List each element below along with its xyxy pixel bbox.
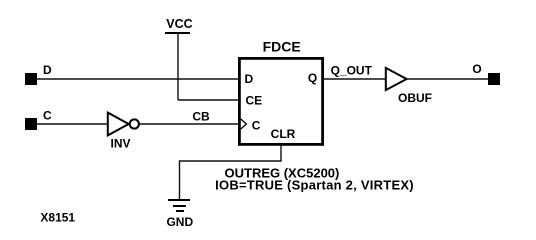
clock wedge xyxy=(241,119,247,129)
input terminal C xyxy=(25,109,52,131)
svg-text:INV: INV xyxy=(110,137,130,151)
svg-text:Q_OUT: Q_OUT xyxy=(331,63,373,77)
svg-text:X8151: X8151 xyxy=(40,211,75,225)
output terminal O xyxy=(472,62,500,85)
svg-text:D: D xyxy=(245,72,254,86)
svg-text:C: C xyxy=(43,109,52,123)
svg-text:CB: CB xyxy=(192,110,210,124)
svg-text:CE: CE xyxy=(246,94,263,108)
svg-text:C: C xyxy=(252,119,261,133)
svg-text:GND: GND xyxy=(166,215,193,229)
wire net CB xyxy=(140,110,240,125)
wire VCC vertical to CE xyxy=(177,33,179,100)
wire net D xyxy=(37,78,239,80)
power VCC symbol xyxy=(165,17,193,33)
input terminal D xyxy=(25,63,52,85)
wire C to inverter xyxy=(37,123,107,125)
svg-text:VCC: VCC xyxy=(166,17,192,31)
wire net Q_OUT xyxy=(323,63,385,79)
svg-text:O: O xyxy=(472,62,481,76)
svg-text:D: D xyxy=(43,63,52,77)
wire CE horizontal xyxy=(178,99,239,101)
inverter INV xyxy=(108,113,139,151)
svg-text:IOB=TRUE (Spartan 2, VIRTEX): IOB=TRUE (Spartan 2, VIRTEX) xyxy=(215,178,414,193)
flip-flop FDCE xyxy=(239,39,322,145)
wire OBUF to O xyxy=(407,78,488,80)
svg-text:CLR: CLR xyxy=(271,127,296,141)
buffer OBUF xyxy=(386,68,432,105)
svg-text:OBUF: OBUF xyxy=(398,91,432,105)
ground GND xyxy=(166,200,193,229)
svg-text:FDCE: FDCE xyxy=(263,39,301,55)
wire CLR to ground xyxy=(180,145,282,200)
svg-text:Q: Q xyxy=(308,71,317,85)
